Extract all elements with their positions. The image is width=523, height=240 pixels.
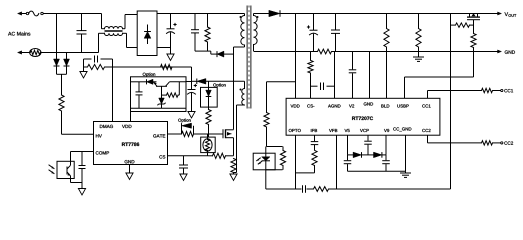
pin GND U3: [364, 102, 373, 105]
load switch Q3: [467, 13, 480, 33]
CC2 wire: [427, 135, 429, 143]
output cap C8: [307, 14, 318, 52]
label AC Mains: [8, 32, 30, 36]
ground U1: [126, 173, 133, 180]
clamp diode D3: [217, 51, 234, 57]
ground VDD cap: [188, 112, 195, 119]
GND wire U3: [369, 52, 371, 99]
CC1 terminal: [501, 89, 513, 92]
sense resistor R9: [231, 159, 236, 175]
dot primary: [240, 16, 242, 18]
label Option 3: [178, 119, 190, 123]
optocoupler U2 LED side: [253, 153, 275, 170]
label Option 1: [143, 73, 155, 77]
feedback rail: [266, 188, 451, 190]
pin CC1: [422, 104, 430, 107]
option1 zener D5: [157, 98, 165, 108]
label VOUT: [505, 12, 517, 17]
aux rectifier wire: [186, 81, 192, 83]
secondary gnd rail: [254, 51, 488, 53]
clamp node wire: [195, 51, 217, 54]
switch node wire: [233, 47, 235, 129]
GND terminal: [488, 50, 515, 54]
pin IFB: [311, 129, 317, 132]
VDD capacitor C4: [188, 84, 197, 112]
output cap C9: [331, 14, 340, 52]
label RT7207C: [352, 117, 373, 121]
pin HV: [96, 134, 102, 137]
charge pump diode D11: [374, 152, 387, 158]
opto cathode wire: [266, 170, 283, 189]
CC1 wire: [427, 91, 429, 99]
transformer T1 core: [247, 6, 251, 109]
CC2 terminal: [501, 141, 513, 144]
IFB cap C15: [311, 135, 319, 150]
startup diode D1: [54, 59, 60, 74]
gate resistor R21: [471, 34, 476, 78]
bulk capacitor C1: [167, 14, 177, 55]
CC1 resistor R16: [428, 88, 501, 92]
DMAG RC left node: [84, 59, 113, 72]
clamp capacitor C2: [191, 14, 199, 52]
AGND wire: [334, 52, 336, 99]
pin GATE: [153, 134, 165, 137]
option box 2: [201, 87, 218, 107]
X-capacitor CX1: [77, 14, 87, 53]
OPTO wire: [295, 135, 297, 189]
DMAG filter cap C3: [84, 56, 113, 63]
pin DMAG: [100, 125, 113, 128]
label RT7786: [122, 143, 139, 147]
pin CS: [159, 155, 165, 158]
VDD node vertical: [191, 67, 193, 90]
resistor R6: [206, 110, 211, 138]
wire DMAG up: [112, 67, 114, 122]
opto bias branch: [267, 82, 296, 113]
CC2 resistor R17: [428, 141, 501, 145]
resistor R4 VDD feed: [161, 64, 173, 69]
pin CC_GND: [393, 127, 411, 131]
pin CS-: [307, 104, 314, 107]
pin VFB: [329, 129, 337, 132]
wire opto emitter: [71, 179, 83, 183]
pin USBP: [397, 104, 408, 107]
ground DMAG RC: [80, 72, 87, 79]
COMP cap C7: [79, 152, 86, 189]
wire L to D1: [56, 14, 58, 60]
ground sense: [230, 174, 237, 181]
output diode D9: [269, 10, 467, 16]
pin VCP: [360, 129, 369, 132]
VOUT terminal: [467, 12, 502, 15]
option2 zener D7: [206, 81, 212, 109]
feedback resistor R19: [314, 187, 329, 192]
V9 wire: [385, 135, 387, 155]
CS wire: [168, 155, 209, 157]
charge pump gnd wire: [348, 170, 406, 172]
pin CC2: [422, 129, 430, 132]
option1 top wire: [131, 81, 147, 83]
bridge negative stub: [157, 47, 171, 49]
HV startup resistor R1: [59, 95, 94, 134]
USBP wire: [405, 77, 474, 98]
VFB wire: [336, 135, 338, 189]
charge pump cap C14: [382, 155, 390, 171]
DC+ rail: [157, 13, 245, 15]
opto bias resistor R12: [264, 113, 269, 147]
option1 diode D4: [147, 79, 154, 84]
common-mode choke L1: [99, 14, 138, 53]
dot aux: [240, 89, 242, 91]
wire D1/D2 junction: [57, 74, 67, 95]
option1 cap C5: [136, 82, 143, 109]
resistor R11: [308, 52, 313, 99]
transistor Q2: [154, 82, 170, 98]
wire VDD up: [130, 112, 132, 122]
option1 resistor R5: [162, 82, 180, 98]
opto anode wire: [266, 147, 283, 154]
preload resistor R15: [416, 14, 421, 58]
bridge rectifier BD1: [137, 11, 157, 56]
box RT1: [201, 137, 216, 153]
VDD wire U3: [295, 14, 297, 99]
transformer T1 secondary: [254, 14, 258, 52]
thermistor RT1: [203, 134, 212, 156]
VOUT rail left: [254, 13, 269, 15]
bleed resistor R14: [384, 14, 389, 99]
pin AGND: [328, 104, 340, 107]
fuse F1: [26, 11, 101, 16]
charge pump diode D10: [348, 152, 374, 158]
CS filter cap C6: [179, 156, 188, 174]
dot secondary: [257, 16, 259, 18]
AC line input terminal N: [18, 51, 30, 54]
wire DMAG node to VDD node: [113, 66, 192, 68]
pin BLD: [381, 104, 389, 107]
CS- cap C10: [311, 82, 335, 90]
earth ground 1: [413, 57, 424, 61]
pin GND U1: [125, 160, 135, 163]
ground primary C1: [167, 54, 174, 61]
divider wire: [450, 14, 452, 190]
gate resistor R7: [182, 131, 224, 136]
fusible resistor RF1: [30, 49, 99, 57]
IC U1 RT7786: [94, 122, 168, 165]
option box 1: [131, 77, 187, 112]
pin VDD U1: [122, 125, 131, 128]
VCP flying cap C12: [364, 135, 372, 155]
earth ground 2: [400, 173, 411, 177]
feedback cap C16: [303, 185, 306, 193]
IC U3 RT7207C: [286, 98, 440, 135]
pin V2: [349, 104, 354, 107]
option1 top wire right: [169, 81, 186, 83]
charge pump cap C13: [344, 155, 352, 171]
option3 diode D8: [182, 123, 194, 134]
shunt resistor R10: [318, 49, 332, 54]
option1 bottom wire: [131, 107, 187, 109]
pin V9: [384, 129, 389, 132]
wire N to D2: [66, 53, 68, 60]
CC_GND wire: [405, 135, 407, 173]
V5 wire: [347, 135, 349, 155]
wire COMP: [71, 152, 94, 162]
aux diode D6: [192, 79, 245, 85]
clamp resistor R2: [205, 14, 210, 52]
transformer T1 aux winding: [234, 81, 245, 172]
ground COMP: [78, 189, 85, 196]
option1 wire to Q2: [153, 81, 157, 83]
IFB resistor R18: [296, 150, 318, 173]
gate pullup resistor R20: [451, 23, 474, 27]
pin COMP: [96, 151, 109, 154]
label Option 2: [213, 83, 225, 87]
pin OPTO: [289, 129, 301, 132]
ground CS cap: [180, 174, 187, 181]
pin V5: [345, 129, 350, 132]
pin VDD U3: [291, 104, 300, 107]
AC line input terminal L: [18, 12, 27, 15]
optocoupler U2 transistor side: [49, 161, 74, 178]
opto parallel resistor R13: [280, 147, 285, 170]
MOSFET Q1: [223, 129, 234, 156]
transformer T1 primary: [234, 14, 245, 48]
wire U1 GND down: [129, 165, 131, 174]
DMAG resistor R3: [84, 64, 113, 69]
wire GATE: [168, 133, 182, 135]
startup diode D2: [64, 59, 70, 74]
resistor R8: [209, 153, 234, 158]
V2 cap C11: [349, 52, 357, 99]
